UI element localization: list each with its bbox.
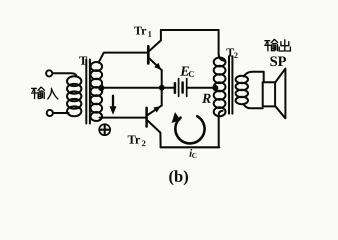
svg-text:Tr: Tr [134, 23, 147, 37]
wire top rail [161, 29, 219, 31]
svg-text:(b): (b) [169, 167, 189, 186]
transistor Tr2 emitter with arrow [148, 106, 162, 115]
出 of 输出 [284, 40, 286, 51]
node emitter junction [159, 85, 165, 91]
label T1 [79, 23, 287, 185]
label 输出 (output) hand-drawn glyphs [265, 40, 291, 52]
wire input lower [53, 112, 68, 114]
wire T1 secondary top lead to Tr1 base [99, 53, 147, 63]
transistor Tr1 emitter with arrow [150, 59, 162, 71]
svg-text:C: C [192, 152, 197, 160]
svg-text:1: 1 [88, 59, 92, 69]
input terminal upper [46, 70, 52, 76]
node T1 center tap [98, 85, 104, 91]
transformer T2 primary winding [214, 58, 226, 117]
input terminal lower [47, 110, 53, 116]
battery EC [175, 79, 187, 97]
speaker SP body [263, 82, 275, 106]
speaker SP horn [275, 69, 285, 119]
svg-text:1: 1 [148, 29, 152, 39]
wire T2 secondary bottom lead to speaker [244, 104, 263, 108]
svg-text:2: 2 [234, 51, 238, 60]
wire T2 secondary top lead to speaker [244, 72, 264, 83]
输 of 输入 [32, 87, 37, 89]
plus polarity symbol [99, 124, 110, 135]
arrow bias current (down arrow) [110, 96, 117, 115]
arrow collector current loop iC [172, 112, 205, 143]
transistor Tr2 collector [148, 121, 161, 147]
wire T1 secondary bottom lead to Tr2 base [100, 117, 146, 119]
transformer T1 core [86, 60, 90, 124]
svg-text:SP: SP [270, 54, 287, 70]
输 of 输出 [265, 40, 270, 42]
wire battery to T2 center tap [188, 87, 213, 89]
wire T2 primary top lead [219, 30, 224, 61]
wire common emitter vertical [161, 70, 163, 106]
transformer T1 secondary winding [91, 62, 103, 121]
svg-text:T: T [79, 54, 88, 68]
transformer T1 primary winding [67, 76, 81, 116]
svg-text:Tr: Tr [127, 133, 140, 147]
入 of 输入 [48, 88, 52, 99]
svg-text:2: 2 [142, 138, 146, 148]
wire bottom rail [161, 146, 220, 148]
wire input upper [53, 73, 77, 76]
transistor Tr1 collector [150, 30, 161, 51]
label 输入 (input) hand-drawn glyphs [32, 87, 58, 99]
wire T2 primary bottom lead [219, 111, 223, 148]
wire center tap to battery [101, 87, 174, 89]
transformer T2 secondary winding [236, 76, 248, 104]
transformer T2 core [229, 56, 232, 113]
transistor Tr2 base bar [145, 108, 148, 127]
transistor Tr1 base bar [147, 46, 150, 63]
svg-text:R: R [201, 92, 211, 107]
svg-text:C: C [188, 69, 194, 79]
node T2 center tap [212, 85, 218, 91]
